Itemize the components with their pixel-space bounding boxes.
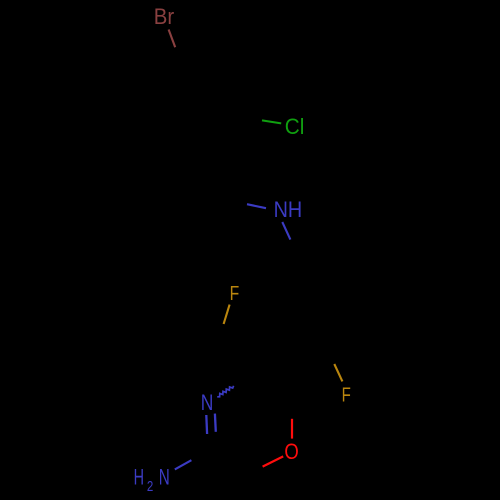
svg-text:F: F [342,384,351,407]
svg-text:N: N [201,390,214,415]
bond NH-C half [282,222,290,240]
svg-text:Br: Br [154,4,174,29]
bond C-Cl half [262,120,281,123]
svg-text:NH: NH [274,197,303,222]
bond Br-C half [169,30,176,48]
svg-text:H: H [134,464,144,489]
bond CH2-NH half [247,204,266,208]
svg-text:N: N [159,464,170,489]
bond N-C wavy half [217,386,233,397]
bond C-F upper half [224,305,230,324]
bond N=C double line a [205,415,208,434]
svg-text:2: 2 [147,478,153,495]
bond N=C double line b [214,414,217,432]
svg-text:O: O [284,439,298,464]
svg-text:Cl: Cl [285,114,305,139]
bond C-F right half [334,364,342,381]
bond H2N-C half [175,460,192,469]
svg-text:F: F [230,282,240,305]
bond C-O vertical half [291,419,293,439]
bond CH2-O half [263,456,284,466]
